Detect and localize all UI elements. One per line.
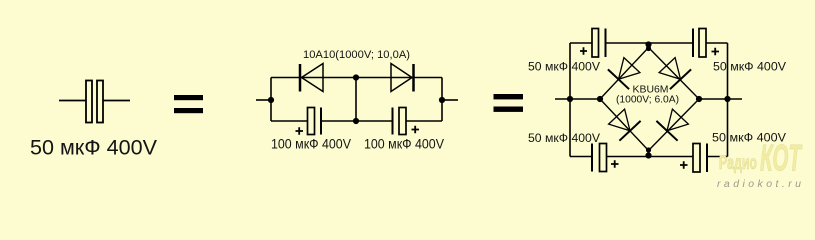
wire: bridge edge left-bottom: [600, 99, 649, 151]
svg-text:(1000V; 6.0A): (1000V; 6.0A): [616, 95, 679, 106]
node: bridge bottom apex: [646, 147, 651, 152]
wire: circuit3 right rail: [727, 43, 729, 157]
diode VD5: [609, 109, 641, 141]
capacitor C3: [393, 108, 420, 135]
capacitor C5: [693, 29, 719, 58]
wire: circuit3 top rail right segment: [706, 42, 728, 44]
node: bridge right vertex: [696, 96, 702, 102]
node: circuit3 left rail junction: [567, 96, 573, 102]
node: circuit2 left junction: [268, 97, 274, 103]
svg-text:50 мкФ 400V: 50 мкФ 400V: [528, 60, 600, 74]
svg-text:radiokot.ru: radiokot.ru: [717, 178, 801, 190]
wire: circuit3 bottom rail right segment: [707, 156, 728, 158]
wire: circuit3 top rail left segment: [570, 42, 592, 44]
svg-text:50 мкФ 400V: 50 мкФ 400V: [30, 136, 158, 160]
wire: bridge edge left-top: [600, 48, 649, 100]
wire: circuit2 center vertical: [355, 78, 357, 122]
wire: circuit2 top rail: [271, 77, 442, 79]
capacitor C2: [296, 108, 322, 135]
wire: circuit3 bottom rail center segment: [607, 156, 694, 158]
wire: circuit3 bottom rail left segment: [570, 156, 592, 158]
capacitor C1: [59, 81, 130, 123]
node: bridge top vertex: [645, 41, 651, 47]
wire: bridge edge bottom-right: [649, 99, 700, 151]
wire: circuit2 left input lead: [256, 99, 271, 101]
node: circuit3 right rail junction: [724, 96, 730, 102]
wire: circuit2 bottom rail left segment: [271, 120, 308, 122]
node: bridge bottom vertex: [645, 152, 651, 158]
svg-text:10A10(1000V; 10,0A): 10A10(1000V; 10,0A): [303, 49, 410, 61]
node: bridge top apex: [646, 46, 651, 51]
wire: bridge top stub: [648, 43, 650, 49]
svg-text:100 мкФ 400V: 100 мкФ 400V: [271, 137, 351, 152]
wire: circuit3 left rail: [569, 43, 571, 157]
equals sign 1: [174, 95, 203, 113]
wire: circuit2 right output lead: [442, 99, 458, 101]
equals sign 2: [494, 94, 524, 112]
wire: circuit2 right rail: [441, 78, 443, 122]
capacitor C4: [580, 29, 606, 58]
wire: circuit3 left input lead: [555, 98, 600, 100]
svg-text:100 мкФ 400V: 100 мкФ 400V: [364, 137, 444, 152]
node: circuit2 top center junction: [353, 74, 359, 80]
svg-text:50 мкФ 400V: 50 мкФ 400V: [713, 60, 786, 74]
svg-text:КОТ: КОТ: [760, 138, 803, 179]
capacitor C7: [680, 144, 707, 173]
wire: circuit3 right output lead: [699, 98, 742, 100]
wire: circuit2 bottom rail center segment: [321, 120, 393, 122]
wire: circuit2 bottom rail right segment: [406, 120, 442, 122]
node: circuit2 right junction: [439, 97, 445, 103]
diode VD4: [659, 58, 691, 90]
node: circuit2 bottom center junction: [353, 118, 359, 124]
capacitor C6: [592, 144, 619, 172]
svg-text:Радио: Радио: [719, 153, 757, 174]
wire: bridge edge top-right: [649, 48, 700, 100]
node: bridge left vertex: [597, 96, 603, 102]
diode VD1: [300, 64, 323, 92]
svg-text:50 мкФ 400V: 50 мкФ 400V: [528, 131, 600, 145]
wire: circuit2 left rail: [270, 78, 272, 122]
diode VD2: [391, 64, 414, 92]
diode VD3: [608, 58, 640, 90]
wire: bridge bottom stub: [648, 150, 650, 157]
diode VD6: [656, 109, 688, 141]
wire: circuit3 top rail center segment: [606, 42, 694, 44]
